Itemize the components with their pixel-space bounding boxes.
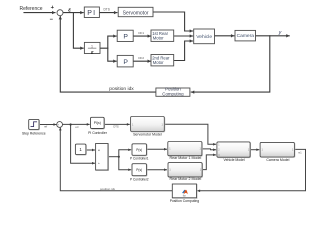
block divide (96, 144, 108, 171)
svg-text:ε: ε (68, 8, 71, 14)
svg-text:PI Controller: PI Controller (88, 131, 108, 135)
wire sum to PI with branch node (63, 12, 83, 14)
wire 2nd rear motor up to Vehicle port3 (175, 41, 193, 61)
svg-text:Camera Model: Camera Model (266, 158, 289, 162)
wire err branch down to divide (71, 125, 95, 164)
block epsilon divider (84, 42, 100, 56)
svg-text:PI: PI (87, 10, 96, 17)
block Servomotor Model (131, 117, 165, 137)
wire Servomotor to Vehicle port1 (153, 12, 193, 31)
wire reference input (24, 12, 55, 14)
block Servomotor (118, 7, 153, 16)
block PI (84, 7, 99, 18)
block 1st rear motor (151, 30, 174, 41)
svg-text:DF2: DF2 (138, 56, 144, 60)
svg-text:Step Reference: Step Reference (22, 131, 46, 135)
block Camera (235, 30, 256, 41)
node split junction (118, 156, 120, 158)
wire split up to P Controller1 (119, 150, 131, 157)
sum2 circle (57, 122, 63, 130)
svg-text:y: y (278, 30, 282, 36)
svg-text:P: P (123, 34, 128, 41)
wire split down to P Controller2 (119, 157, 131, 170)
block P Controller2 (130, 164, 149, 182)
wire Servomotor Model to Vehicle Model port1 (164, 124, 215, 144)
wire divide to split node (108, 156, 119, 158)
block 2nd rear motor (151, 55, 174, 66)
svg-text:Motor: Motor (153, 60, 164, 65)
svg-text:Rear Motor 2 Model: Rear Motor 2 Model (170, 177, 202, 181)
svg-text:P(s): P(s) (136, 168, 142, 172)
svg-text:ref: ref (44, 125, 47, 129)
svg-text:Servomotor Model: Servomotor Model (133, 132, 162, 136)
wire Vehicle Model to Camera Model (250, 149, 259, 151)
block P2 (117, 55, 133, 67)
wire Vehicle to Camera (215, 35, 234, 37)
wire Position Computing back to sum (60, 16, 156, 92)
svg-text:×: × (98, 148, 100, 152)
wire P2 to 2nd rear motor (133, 60, 151, 62)
block Step Reference (22, 119, 46, 135)
block P Controller1 (130, 144, 149, 161)
block Position Computing (top) (156, 86, 190, 96)
wire Rear Motor 2 Model up to Vehicle Model port3 (202, 155, 216, 170)
svg-text:P(s): P(s) (136, 148, 142, 152)
block P1 (117, 30, 133, 41)
svg-text:Motor: Motor (153, 36, 164, 41)
node err junction (70, 123, 72, 125)
wire Position Computing fcn back to sum2 (60, 128, 172, 191)
svg-text:P Controller1: P Controller1 (130, 156, 149, 160)
svg-text:Vehicle Model: Vehicle Model (224, 158, 245, 162)
wire divider to splitter up into P1 (100, 36, 116, 48)
svg-text:Camera: Camera (237, 33, 255, 39)
svg-text:Rear Motor 1 Model: Rear Motor 1 Model (170, 156, 202, 160)
block Vehicle (194, 29, 215, 44)
svg-text:÷: ÷ (98, 162, 100, 166)
svg-text:DTS: DTS (113, 125, 119, 129)
svg-text:m1: m1 (298, 151, 302, 154)
wire sum2 to PI(s) (63, 123, 90, 125)
svg-text:position idx: position idx (100, 187, 116, 191)
block constant 1 (75, 144, 86, 155)
wire splitter down into P2 (108, 48, 116, 61)
svg-text:position idx: position idx (109, 86, 134, 92)
block Rear Motor 2 Model (168, 163, 202, 182)
wire Rear Motor 1 Model to Vehicle Model port2 (202, 148, 216, 151)
block Vehicle Model (217, 142, 250, 162)
wire step to sum2 (39, 124, 56, 126)
block Rear Motor 1 Model (168, 142, 202, 160)
block PI Controller (88, 117, 108, 135)
svg-text:P Controller2: P Controller2 (130, 177, 149, 181)
svg-text:−: − (50, 17, 54, 23)
svg-text:Position Computing: Position Computing (170, 199, 200, 203)
wire P1 to 1st rear motor (133, 35, 151, 37)
wire Camera to output y (256, 35, 289, 37)
svg-text:Reference: Reference (19, 6, 42, 12)
svg-text:PI(s): PI(s) (94, 121, 101, 125)
svg-text:Vehicle: Vehicle (196, 34, 212, 40)
svg-text:DF1: DF1 (138, 31, 144, 35)
wire 1st rear motor to Vehicle port2 (175, 35, 193, 37)
sum junction circle (57, 10, 63, 16)
wire PI(s) to Servomotor Model (104, 123, 129, 125)
wire Camera Model feedback down to Position Computing fcn (198, 149, 306, 190)
wire PI to Servomotor (99, 12, 117, 14)
svg-text:P: P (123, 59, 128, 66)
wire P Controller2 to Rear Motor 2 Model (147, 169, 167, 171)
svg-text:Computing: Computing (162, 91, 184, 96)
wire branch down to divider (73, 13, 83, 49)
svg-text:−: − (59, 125, 61, 129)
wire P Controller1 to Rear Motor 1 Model (147, 148, 167, 150)
block Camera Model (260, 142, 294, 161)
block Position Computing fcn (170, 184, 200, 203)
svg-text:DTS: DTS (104, 8, 110, 12)
svg-text:err: err (75, 125, 78, 129)
wire constant 1 to divide (86, 149, 95, 151)
svg-text:Servomotor: Servomotor (123, 10, 149, 16)
wire feedback tap down to Position Computing (191, 36, 269, 92)
svg-text:+: + (51, 5, 55, 11)
svg-text:ε: ε (91, 50, 94, 56)
